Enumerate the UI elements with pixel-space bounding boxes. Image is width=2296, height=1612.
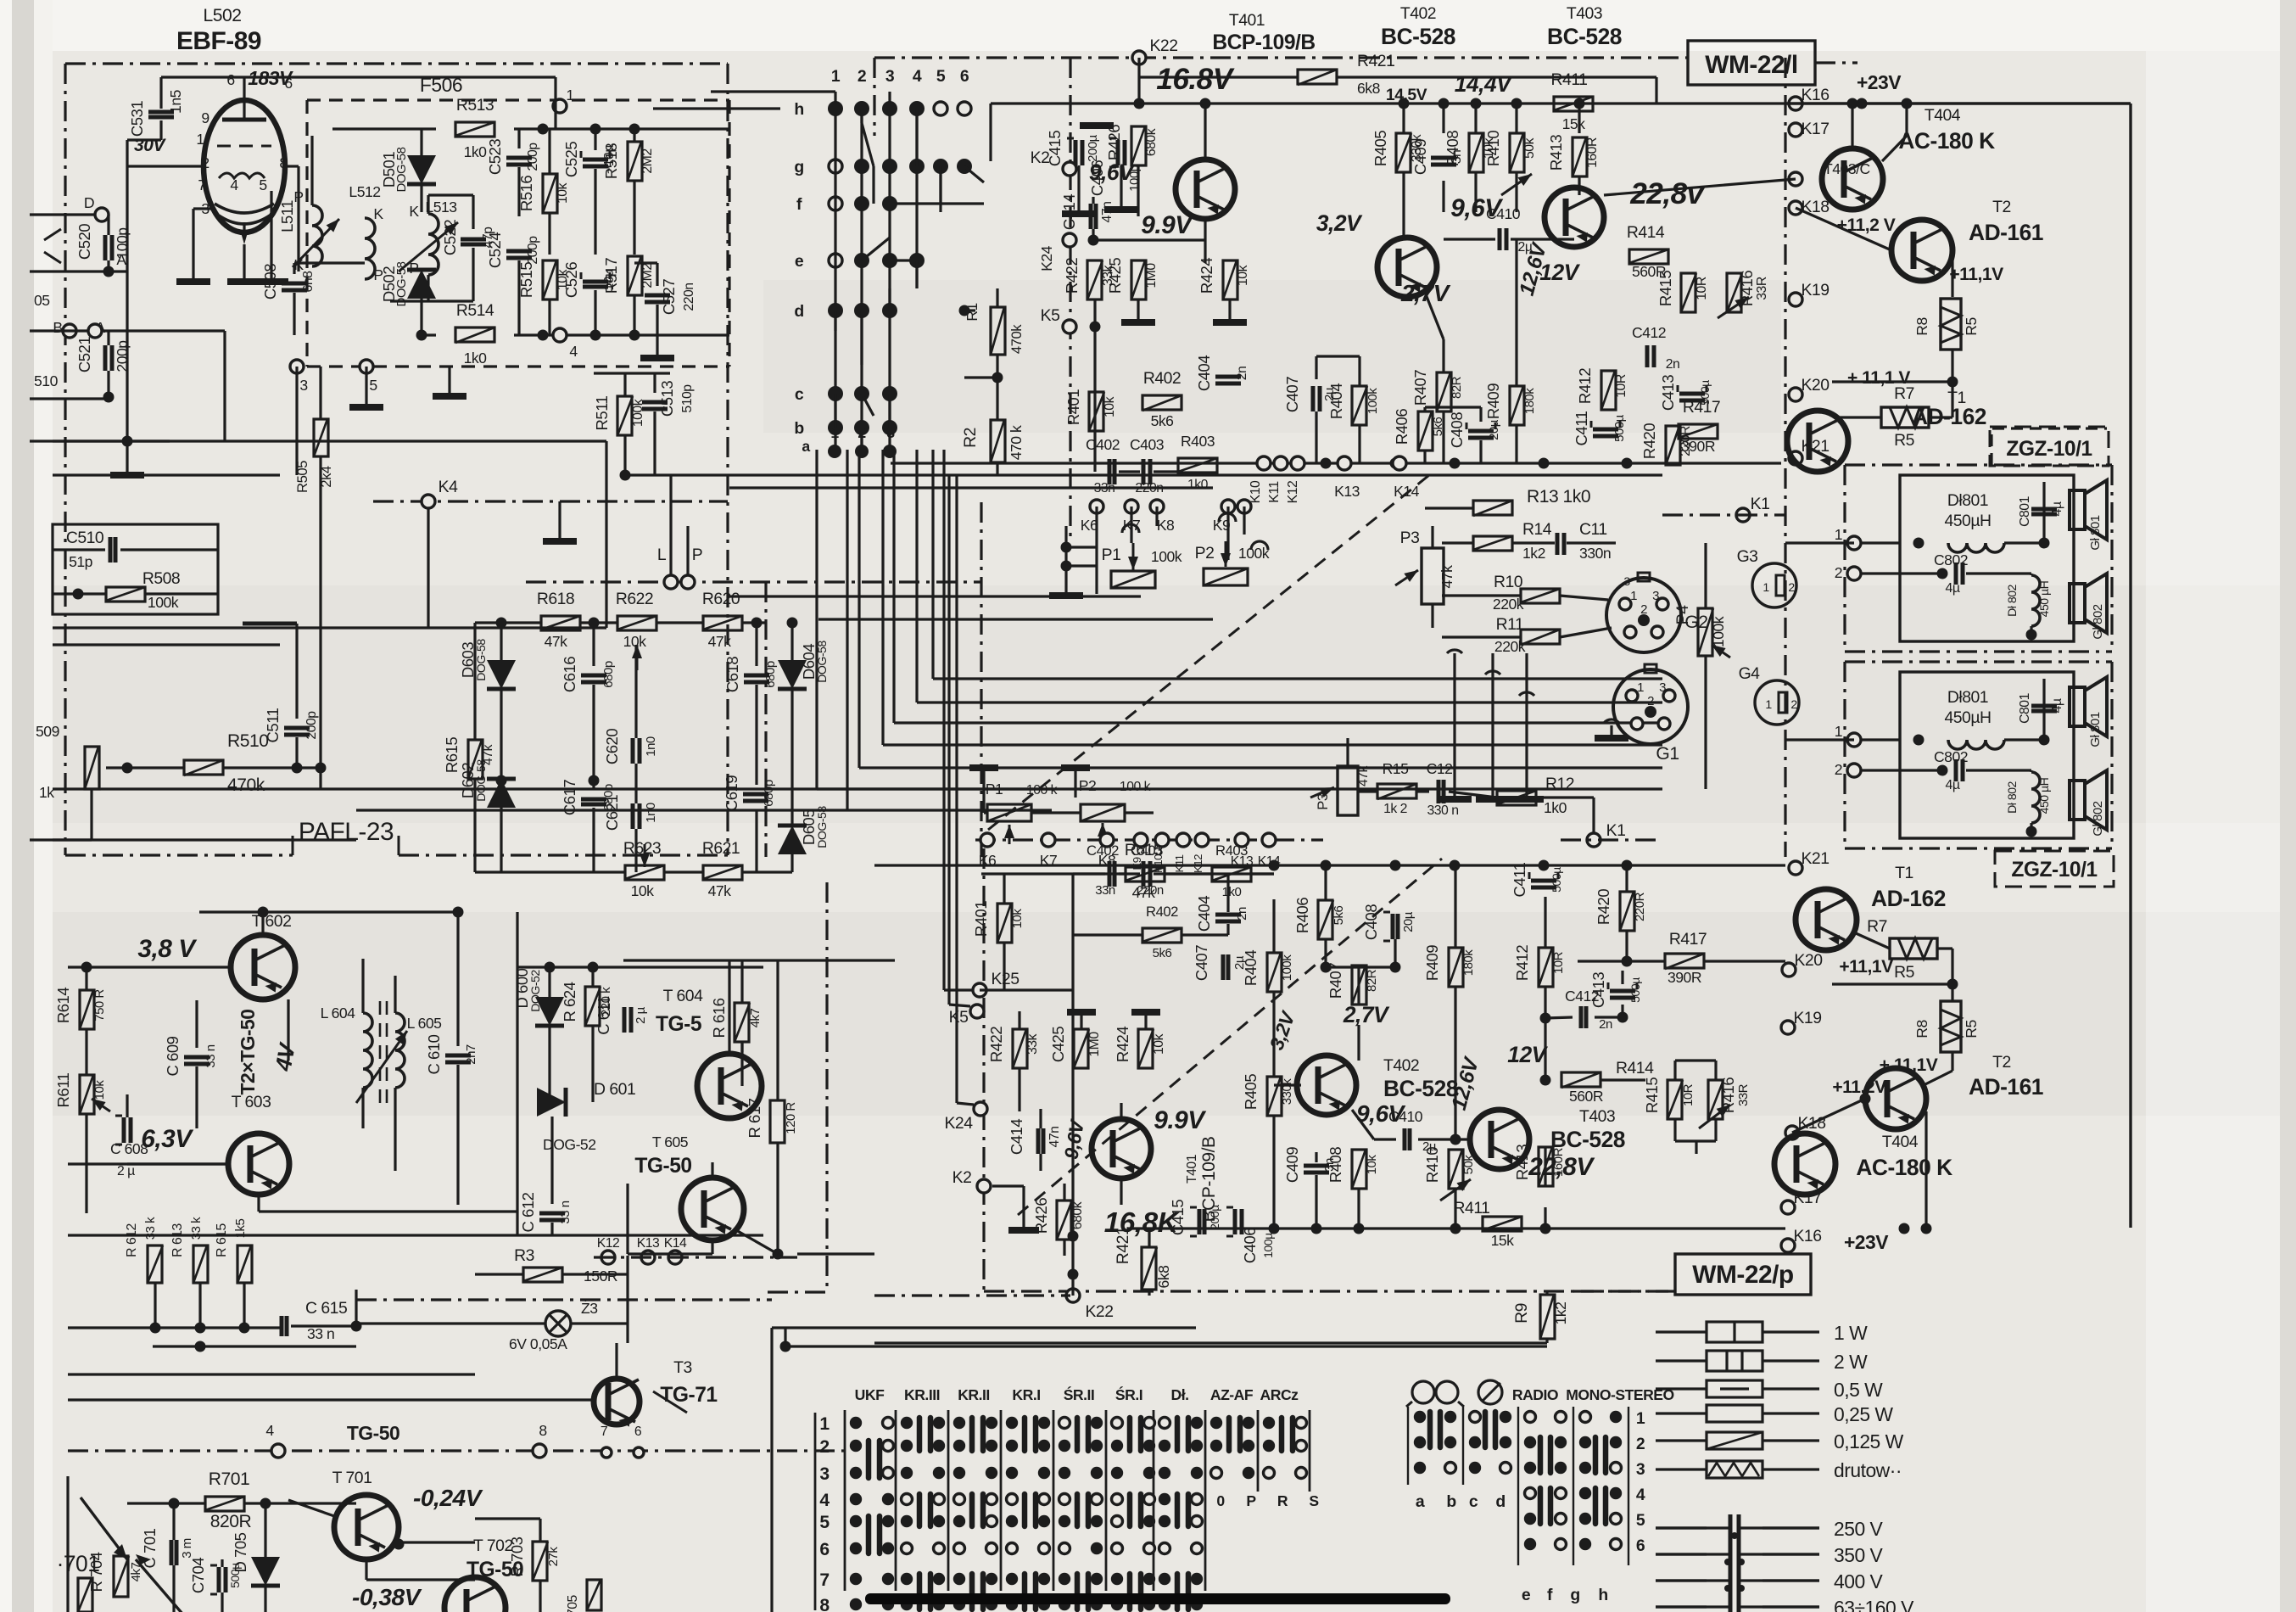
svg-text:BC-528: BC-528	[1383, 1076, 1458, 1101]
svg-text:27k: 27k	[546, 1547, 561, 1567]
svg-text:33 n: 33 n	[307, 1325, 334, 1342]
svg-text:K13: K13	[1231, 854, 1254, 869]
svg-text:C619: C619	[723, 775, 740, 811]
svg-text:200µ: 200µ	[1086, 134, 1100, 162]
svg-text:R413: R413	[1513, 1145, 1531, 1180]
svg-text:5: 5	[259, 176, 267, 193]
svg-text:R9: R9	[1512, 1303, 1531, 1324]
svg-text:2M2: 2M2	[640, 148, 655, 173]
svg-text:5k6: 5k6	[1153, 946, 1172, 960]
svg-text:R424: R424	[1114, 1027, 1131, 1062]
svg-text:C801: C801	[2018, 692, 2032, 723]
svg-text:6: 6	[1636, 1536, 1645, 1555]
svg-text:R414: R414	[1627, 223, 1665, 242]
svg-text:EBF-89: EBF-89	[176, 27, 261, 55]
svg-text:R621: R621	[702, 839, 740, 858]
svg-text:200p: 200p	[526, 143, 540, 171]
svg-text:DOG-58: DOG-58	[815, 641, 829, 683]
svg-text:Dł 802: Dł 802	[2005, 781, 2019, 813]
svg-text:C 609: C 609	[164, 1036, 182, 1076]
svg-text:KR.I: KR.I	[1012, 1386, 1040, 1403]
svg-text:6V 0,05A: 6V 0,05A	[509, 1335, 567, 1352]
svg-text:1: 1	[1636, 1409, 1645, 1428]
svg-text:C524: C524	[486, 232, 504, 268]
svg-text:-0,24V: -0,24V	[413, 1484, 483, 1511]
svg-text:1k 2: 1k 2	[1383, 802, 1407, 816]
svg-text:3: 3	[885, 67, 895, 86]
svg-text:P: P	[692, 546, 702, 564]
svg-text:2n: 2n	[1235, 367, 1249, 381]
svg-text:450µH: 450µH	[1944, 512, 1991, 530]
svg-text:200p: 200p	[304, 711, 319, 740]
svg-text:100 k: 100 k	[1026, 783, 1058, 798]
svg-text:G3: G3	[1737, 547, 1758, 566]
svg-text:4: 4	[230, 176, 238, 193]
svg-text:ŚR.I: ŚR.I	[1115, 1385, 1142, 1403]
svg-text:R 613: R 613	[170, 1223, 185, 1257]
svg-text:ZGZ-10/1: ZGZ-10/1	[2011, 859, 2097, 882]
svg-text:C414: C414	[1008, 1119, 1025, 1155]
svg-text:15k: 15k	[1491, 1232, 1515, 1249]
svg-text:R422: R422	[987, 1027, 1005, 1062]
svg-text:R618: R618	[537, 590, 574, 608]
svg-text:R514: R514	[456, 301, 494, 320]
svg-text:C 615: C 615	[305, 1299, 347, 1318]
svg-text:1 W: 1 W	[1834, 1322, 1868, 1344]
svg-text:50k: 50k	[1461, 1155, 1476, 1175]
svg-text:R5: R5	[1894, 431, 1914, 450]
svg-text:4µ: 4µ	[2050, 698, 2064, 713]
svg-text:2: 2	[1835, 761, 1842, 778]
svg-text:6,3V: 6,3V	[141, 1125, 194, 1153]
svg-text:T404: T404	[1925, 106, 1961, 125]
svg-text:2,7V: 2,7V	[1400, 279, 1451, 306]
svg-text:T402: T402	[1383, 1056, 1419, 1075]
svg-text:20µ: 20µ	[1487, 419, 1501, 440]
svg-text:C407: C407	[1283, 377, 1301, 412]
svg-text:4µ: 4µ	[2050, 501, 2064, 516]
svg-text:C402: C402	[1086, 436, 1120, 453]
svg-text:R515: R515	[517, 262, 535, 298]
svg-text:5k6: 5k6	[1151, 412, 1175, 429]
svg-text:33 k: 33 k	[189, 1217, 204, 1240]
svg-text:K20: K20	[1801, 376, 1830, 395]
svg-text:1: 1	[1763, 580, 1769, 594]
svg-text:g: g	[1570, 1586, 1579, 1604]
svg-text:BC-528: BC-528	[1381, 24, 1455, 49]
svg-text:1k0: 1k0	[1544, 799, 1567, 816]
svg-text:R426: R426	[1105, 125, 1123, 160]
svg-text:T 604: T 604	[663, 987, 703, 1005]
svg-text:2n: 2n	[1666, 357, 1680, 372]
svg-text:6k8: 6k8	[1357, 80, 1381, 97]
svg-text:220R: 220R	[1633, 892, 1647, 921]
svg-text:R414: R414	[1616, 1059, 1654, 1077]
svg-text:R409: R409	[1423, 945, 1441, 981]
svg-text:1: 1	[196, 131, 204, 148]
svg-text:10k: 10k	[92, 1080, 107, 1100]
svg-text:g: g	[794, 158, 803, 176]
svg-text:DOG-58: DOG-58	[815, 806, 829, 848]
svg-text:680p: 680p	[601, 661, 616, 688]
svg-text:2: 2	[1636, 1435, 1645, 1453]
svg-text:14,4V: 14,4V	[1455, 71, 1513, 97]
svg-text:T 605: T 605	[652, 1133, 689, 1150]
svg-text:1k0: 1k0	[1222, 885, 1242, 899]
svg-text:UKF: UKF	[855, 1386, 885, 1403]
svg-text:2: 2	[201, 154, 209, 171]
svg-text:100 k: 100 k	[1120, 780, 1151, 794]
svg-text:8: 8	[279, 154, 288, 171]
svg-text:R10: R10	[1494, 573, 1523, 591]
svg-text:R510: R510	[227, 731, 268, 751]
svg-text:R 616: R 616	[710, 998, 728, 1038]
svg-text:L502: L502	[204, 6, 242, 25]
svg-text:47n: 47n	[1100, 202, 1114, 223]
svg-text:K10: K10	[1249, 480, 1263, 503]
svg-text:2n: 2n	[1599, 1017, 1612, 1032]
svg-text:1: 1	[819, 1414, 830, 1434]
svg-text:180k: 180k	[1522, 388, 1537, 415]
svg-text:C616: C616	[561, 657, 578, 692]
svg-text:drutow··: drutow··	[1834, 1459, 1902, 1481]
svg-text:2 µ: 2 µ	[634, 1006, 648, 1024]
svg-text:R409: R409	[1484, 383, 1502, 419]
svg-text:RADIO: RADIO	[1512, 1386, 1558, 1403]
svg-text:e: e	[1522, 1586, 1531, 1604]
svg-text:G1: G1	[1656, 744, 1679, 764]
svg-text:C531: C531	[128, 101, 146, 137]
svg-text:AC-180 K: AC-180 K	[1898, 128, 1995, 154]
svg-text:160R: 160R	[1551, 1147, 1566, 1177]
svg-text:160R: 160R	[1585, 137, 1600, 168]
svg-text:1M0: 1M0	[1087, 1032, 1102, 1057]
svg-text:7: 7	[601, 1424, 607, 1439]
svg-text:T3: T3	[673, 1358, 692, 1377]
svg-text:C618: C618	[723, 657, 741, 692]
svg-text:220k: 220k	[1494, 638, 1526, 655]
svg-text:C801: C801	[2018, 495, 2032, 526]
svg-text:C617: C617	[561, 780, 578, 815]
svg-text:680p: 680p	[762, 780, 776, 807]
svg-text:R 624: R 624	[561, 982, 578, 1021]
svg-text:220n: 220n	[682, 283, 696, 311]
svg-text:f: f	[796, 195, 802, 214]
svg-text:0,125 W: 0,125 W	[1834, 1430, 1904, 1452]
svg-text:C404: C404	[1195, 355, 1213, 391]
svg-text:47k: 47k	[708, 633, 732, 650]
svg-text:C410: C410	[1388, 1108, 1423, 1125]
svg-text:9.9V: 9.9V	[1141, 211, 1194, 239]
svg-text:3: 3	[1636, 1460, 1645, 1479]
svg-text:R516: R516	[517, 176, 535, 211]
svg-text:10k: 10k	[556, 182, 570, 204]
svg-text:120 R: 120 R	[784, 1102, 798, 1134]
svg-text:R411: R411	[1454, 1199, 1490, 1217]
svg-text:6: 6	[226, 71, 235, 88]
svg-text:D: D	[84, 194, 94, 211]
svg-text:P4: P4	[1673, 605, 1692, 624]
svg-text:4: 4	[1636, 1486, 1645, 1504]
svg-text:R701: R701	[209, 1469, 249, 1489]
svg-text:1M0: 1M0	[1144, 263, 1159, 288]
svg-text:K19: K19	[1801, 281, 1829, 299]
svg-text:R 617: R 617	[746, 1098, 763, 1138]
svg-text:1n5: 1n5	[167, 89, 184, 114]
svg-text:+11,2V: +11,2V	[1832, 1077, 1886, 1097]
svg-text:T 702: T 702	[473, 1536, 513, 1555]
svg-text:33R: 33R	[1736, 1083, 1751, 1106]
svg-text:1: 1	[1765, 697, 1772, 711]
svg-text:6n8: 6n8	[301, 271, 316, 293]
svg-text:10R: 10R	[1614, 374, 1628, 398]
svg-text:P3: P3	[1400, 529, 1420, 547]
svg-text:T402: T402	[1400, 4, 1436, 23]
svg-text:K5: K5	[1041, 306, 1060, 325]
svg-text:K22: K22	[1149, 36, 1177, 55]
svg-text:R425: R425	[1106, 258, 1124, 294]
svg-text:C704: C704	[189, 1558, 207, 1593]
svg-text:L512: L512	[349, 183, 380, 200]
svg-text:C527: C527	[660, 279, 678, 315]
svg-text:R411: R411	[1551, 70, 1588, 89]
svg-text:R404: R404	[1327, 383, 1345, 419]
svg-text:5k6: 5k6	[1431, 417, 1445, 437]
svg-text:R5: R5	[1894, 963, 1914, 982]
svg-text:Gł 802: Gł 802	[2091, 604, 2105, 639]
svg-text:R2: R2	[961, 428, 980, 448]
svg-text:c: c	[795, 385, 804, 404]
svg-text:R402: R402	[1143, 369, 1181, 388]
svg-text:K2: K2	[1031, 148, 1050, 167]
svg-text:R13 1k0: R13 1k0	[1527, 487, 1590, 507]
svg-text:3: 3	[1623, 574, 1630, 588]
svg-text:500µ: 500µ	[1612, 414, 1627, 442]
svg-text:DOG-58: DOG-58	[394, 261, 409, 306]
svg-text:C408: C408	[1448, 412, 1466, 448]
svg-text:+11,2 V: +11,2 V	[1837, 215, 1896, 235]
svg-text:a: a	[802, 438, 810, 455]
svg-text:T404: T404	[1882, 1133, 1919, 1151]
svg-text:1: 1	[1637, 680, 1644, 695]
svg-text:R403: R403	[1181, 433, 1215, 450]
svg-text:10k: 10k	[1152, 1033, 1166, 1055]
svg-text:330k: 330k	[1280, 1078, 1294, 1105]
svg-text:33n: 33n	[1095, 883, 1115, 898]
svg-text:51p: 51p	[69, 553, 93, 570]
svg-text:KR.II: KR.II	[958, 1386, 990, 1403]
svg-text:WM-22/l: WM-22/l	[1705, 51, 1797, 79]
svg-text:450 µH: 450 µH	[2037, 777, 2051, 814]
svg-text:2: 2	[1640, 602, 1647, 617]
svg-text:D 705: D 705	[232, 1532, 249, 1572]
svg-text:3,2V: 3,2V	[1316, 210, 1363, 236]
svg-text:1: 1	[830, 424, 839, 441]
svg-text:Gł 802: Gł 802	[2091, 801, 2105, 836]
svg-text:R401: R401	[972, 901, 990, 937]
svg-text:Ż3: Ż3	[581, 1300, 598, 1317]
svg-text:Dł.: Dł.	[1171, 1386, 1189, 1403]
svg-text:R426: R426	[1032, 1198, 1050, 1234]
svg-text:5k6: 5k6	[1332, 906, 1346, 926]
svg-text:TG-71: TG-71	[660, 1384, 717, 1407]
svg-text:2n7: 2n7	[464, 1044, 478, 1065]
svg-text:BC-528: BC-528	[1547, 24, 1622, 49]
svg-text:100k: 100k	[1366, 388, 1380, 415]
svg-text:R615: R615	[443, 737, 461, 773]
svg-text:K5: K5	[949, 1008, 969, 1027]
svg-text:6: 6	[284, 75, 293, 92]
svg-text:R 615: R 615	[215, 1223, 229, 1257]
svg-text:C 610: C 610	[425, 1034, 443, 1074]
svg-text:33n: 33n	[1094, 481, 1115, 495]
svg-text:0,5 W: 0,5 W	[1834, 1379, 1883, 1401]
svg-text:33 k: 33 k	[143, 1217, 158, 1240]
svg-text:R3: R3	[514, 1246, 534, 1265]
svg-text:C12: C12	[1427, 760, 1453, 777]
svg-text:2: 2	[1788, 580, 1795, 594]
svg-text:K16: K16	[1793, 1227, 1821, 1245]
svg-text:K19: K19	[1793, 1009, 1821, 1027]
svg-text:7: 7	[819, 1570, 829, 1590]
svg-text:4: 4	[913, 67, 922, 86]
svg-text:K: K	[373, 205, 383, 222]
svg-text:C 612: C 612	[519, 1192, 537, 1232]
svg-text:K8: K8	[1157, 517, 1175, 534]
svg-text:R12: R12	[1545, 775, 1574, 793]
svg-text:K24: K24	[1038, 245, 1055, 271]
svg-text:33R: 33R	[1755, 277, 1769, 300]
svg-text:C404: C404	[1195, 896, 1213, 932]
svg-text:R513: R513	[456, 96, 494, 115]
svg-text:AD-161: AD-161	[1969, 220, 2043, 245]
svg-text:T2×TG-50: T2×TG-50	[237, 1010, 259, 1095]
svg-text:T401: T401	[1229, 11, 1265, 30]
svg-text:9: 9	[201, 109, 209, 126]
svg-text:510: 510	[34, 372, 59, 389]
svg-text:R622: R622	[616, 590, 653, 608]
svg-text:16.8V: 16.8V	[1156, 63, 1234, 96]
svg-text:200p: 200p	[114, 340, 131, 372]
svg-text:b: b	[794, 419, 804, 438]
svg-text:R14: R14	[1522, 520, 1552, 539]
svg-text:T 602: T 602	[252, 912, 292, 931]
svg-text:220n: 220n	[1137, 883, 1164, 898]
svg-text:10k: 10k	[1103, 396, 1117, 417]
svg-text:C510: C510	[66, 529, 104, 547]
svg-text:47k: 47k	[545, 633, 568, 650]
svg-text:5: 5	[1636, 1511, 1645, 1530]
svg-text:K14: K14	[664, 1236, 687, 1251]
svg-text:390R: 390R	[1681, 438, 1715, 455]
svg-text:K1: K1	[1606, 821, 1626, 840]
svg-text:220k: 220k	[1493, 596, 1524, 613]
svg-text:C620: C620	[603, 729, 621, 764]
svg-text:47k: 47k	[708, 882, 732, 899]
svg-text:2,7V: 2,7V	[1343, 1002, 1390, 1027]
svg-text:DOG-52: DOG-52	[528, 970, 542, 1012]
svg-text:+11,1V: +11,1V	[1839, 957, 1893, 977]
svg-text:KR.III: KR.III	[904, 1386, 940, 1403]
svg-text:K6: K6	[979, 852, 997, 869]
svg-text:10k: 10k	[631, 882, 655, 899]
svg-text:DOG-52: DOG-52	[543, 1136, 596, 1153]
svg-text:250 V: 250 V	[1834, 1518, 1884, 1540]
svg-text:R8: R8	[1913, 317, 1930, 336]
svg-text:Dł801: Dł801	[1947, 491, 1988, 510]
svg-text:820R: 820R	[210, 1512, 252, 1531]
svg-text:C411: C411	[1511, 862, 1528, 897]
svg-text:C513: C513	[658, 381, 676, 417]
svg-text:20µ: 20µ	[1401, 911, 1416, 932]
svg-text:100µ: 100µ	[1261, 1233, 1275, 1258]
svg-text:K14: K14	[1258, 854, 1281, 869]
svg-text:TG-50: TG-50	[347, 1422, 399, 1444]
svg-text:T401: T401	[1185, 1154, 1199, 1184]
svg-text:R 705: R 705	[566, 1594, 580, 1612]
svg-text:R401: R401	[1064, 389, 1082, 425]
svg-text:C 701: C 701	[141, 1528, 159, 1568]
svg-text:C425: C425	[1049, 1027, 1067, 1062]
svg-text:1k0: 1k0	[464, 350, 488, 367]
svg-text:330n: 330n	[1579, 545, 1611, 562]
svg-text:AD-161: AD-161	[1969, 1074, 2043, 1100]
svg-text:R407: R407	[1411, 370, 1429, 406]
svg-text:AZ-AF: AZ-AF	[1210, 1386, 1254, 1403]
svg-text:P2: P2	[1195, 544, 1215, 563]
svg-text:C409: C409	[1411, 139, 1429, 175]
svg-text:1: 1	[1630, 589, 1637, 603]
svg-text:680p: 680p	[763, 661, 778, 688]
svg-text:PAFL-23: PAFL-23	[299, 818, 394, 846]
svg-text:P: P	[1246, 1492, 1256, 1509]
svg-text:TG-5: TG-5	[656, 1013, 701, 1036]
svg-text:450µH: 450µH	[1944, 708, 1991, 727]
svg-text:1: 1	[566, 87, 573, 104]
svg-text:05: 05	[34, 292, 50, 309]
svg-text:6: 6	[819, 1540, 829, 1559]
svg-text:22,8v: 22,8v	[1629, 177, 1705, 210]
svg-text:d: d	[1495, 1492, 1505, 1511]
svg-text:R5: R5	[1963, 317, 1980, 336]
svg-text:C520: C520	[75, 224, 93, 260]
svg-text:1: 1	[831, 67, 841, 86]
svg-text:1n0: 1n0	[644, 736, 658, 757]
svg-text:C406: C406	[1088, 160, 1106, 196]
svg-text:100k: 100k	[1151, 548, 1182, 565]
svg-text:K24: K24	[944, 1114, 973, 1133]
svg-text:3: 3	[299, 377, 308, 394]
svg-text:K13: K13	[1334, 483, 1360, 500]
svg-text:L511: L511	[278, 200, 296, 232]
svg-text:AD-162: AD-162	[1912, 404, 1986, 429]
svg-text:C511: C511	[264, 708, 282, 742]
svg-text:10R: 10R	[1551, 951, 1566, 974]
svg-text:R405: R405	[1242, 1074, 1260, 1110]
svg-text:C523: C523	[486, 139, 504, 175]
svg-text:R415: R415	[1643, 1077, 1661, 1113]
svg-text:R421: R421	[1357, 52, 1394, 70]
svg-text:2: 2	[1647, 694, 1654, 708]
svg-text:AD-162: AD-162	[1871, 886, 1946, 911]
svg-text:100k: 100k	[148, 594, 179, 611]
svg-text:2 µ: 2 µ	[117, 1164, 135, 1178]
svg-text:C526: C526	[562, 262, 580, 298]
svg-text:7: 7	[198, 176, 205, 193]
svg-text:h: h	[1598, 1586, 1607, 1604]
svg-text:1k0: 1k0	[464, 143, 488, 160]
svg-text:8: 8	[539, 1422, 547, 1439]
